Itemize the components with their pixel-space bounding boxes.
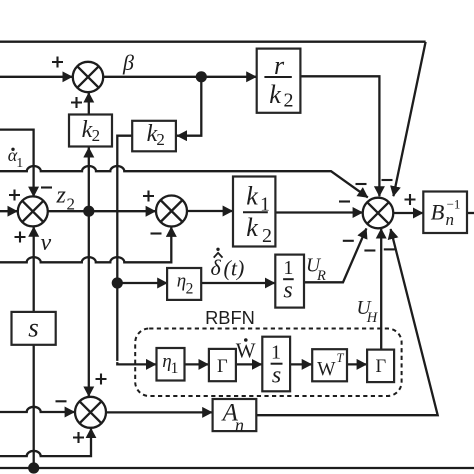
svg-text:v: v: [41, 230, 52, 256]
svg-text:T: T: [337, 351, 345, 365]
svg-text:−1: −1: [447, 197, 461, 212]
svg-text:1: 1: [171, 360, 179, 377]
svg-text:2: 2: [186, 280, 194, 297]
svg-text:Γ: Γ: [375, 357, 386, 377]
svg-text:RBFN: RBFN: [205, 307, 255, 328]
svg-text:1: 1: [271, 342, 281, 364]
svg-text:W: W: [236, 338, 256, 362]
svg-text:s: s: [28, 313, 39, 343]
svg-text:1: 1: [283, 257, 293, 279]
svg-text:2: 2: [262, 225, 272, 247]
svg-text:2: 2: [284, 90, 294, 112]
svg-text:2: 2: [67, 194, 76, 213]
svg-text:n: n: [445, 210, 454, 229]
svg-text:s: s: [272, 362, 281, 388]
svg-text:2: 2: [156, 130, 165, 149]
svg-text:B: B: [431, 199, 445, 224]
svg-text:k: k: [246, 213, 258, 242]
svg-text:H: H: [366, 310, 379, 326]
svg-text:2: 2: [92, 126, 101, 145]
svg-text:z: z: [56, 182, 67, 208]
svg-text:Γ: Γ: [217, 357, 228, 377]
svg-text:1: 1: [16, 156, 23, 171]
svg-text:δ: δ: [211, 255, 222, 280]
svg-text:R: R: [316, 268, 326, 284]
svg-text:(t): (t): [224, 256, 245, 281]
svg-text:k: k: [269, 80, 281, 109]
svg-text:s: s: [283, 277, 292, 303]
svg-text:n: n: [235, 415, 244, 435]
svg-text:k: k: [246, 181, 258, 210]
svg-text:β: β: [122, 50, 134, 75]
svg-text:r: r: [274, 51, 285, 80]
svg-text:W: W: [317, 359, 336, 380]
